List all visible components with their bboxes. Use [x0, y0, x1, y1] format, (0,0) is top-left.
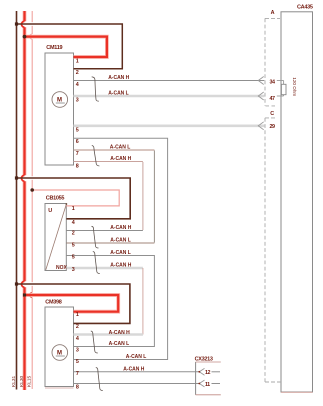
svg-text:KL31: KL31 [11, 375, 17, 387]
svg-text:A-CAN H: A-CAN H [123, 367, 144, 373]
svg-text:A-CAN L: A-CAN L [110, 238, 131, 244]
svg-text:CM119: CM119 [46, 45, 62, 51]
svg-text:29: 29 [270, 124, 275, 130]
svg-text:KL15: KL15 [27, 375, 33, 387]
svg-text:11: 11 [205, 382, 210, 388]
svg-text:A-CAN L: A-CAN L [126, 354, 147, 360]
svg-text:CX3213: CX3213 [195, 356, 213, 362]
svg-text:A-CAN L: A-CAN L [109, 341, 130, 347]
svg-text:A-CAN H: A-CAN H [110, 263, 131, 269]
svg-text:34: 34 [270, 80, 275, 86]
svg-text:120 Ohm: 120 Ohm [292, 77, 297, 96]
svg-text:CM398: CM398 [45, 300, 61, 306]
svg-text:47: 47 [270, 96, 275, 102]
svg-text:NOX: NOX [56, 265, 68, 271]
svg-text:A-CAN H: A-CAN H [109, 330, 130, 336]
svg-text:U: U [48, 208, 52, 214]
svg-text:A-CAN H: A-CAN H [110, 225, 131, 231]
svg-text:A-CAN H: A-CAN H [108, 75, 129, 81]
svg-text:CA435: CA435 [297, 5, 313, 11]
svg-text:CB1055: CB1055 [46, 195, 65, 201]
svg-text:A-CAN L: A-CAN L [110, 145, 131, 151]
svg-text:M: M [57, 97, 62, 103]
svg-text:A-CAN L: A-CAN L [108, 91, 129, 97]
svg-text:M: M [57, 350, 62, 356]
svg-text:A-CAN H: A-CAN H [110, 156, 131, 162]
svg-text:12: 12 [205, 370, 210, 376]
svg-text:A-CAN L: A-CAN L [110, 250, 131, 256]
svg-text:KL30: KL30 [19, 375, 25, 387]
